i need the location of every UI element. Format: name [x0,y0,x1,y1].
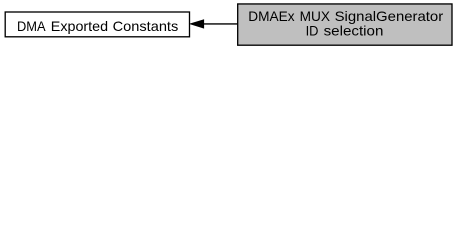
edge arrowhead [191,20,204,28]
node: DMA Exported Constants box [5,12,189,37]
node: DMAEx MUX SignalGenerator ID selection box (current, grey) [238,4,452,45]
edge arrow shaft [203,23,238,25]
svg-text:IDselection: IDselection [306,23,384,39]
svg-text:DMAExportedConstants: DMAExportedConstants [17,18,178,34]
